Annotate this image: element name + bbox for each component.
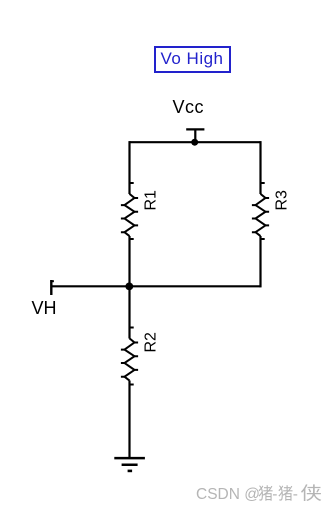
wire R2 upper (junction to R2) — [128, 286, 130, 338]
resistor R1 — [121, 183, 138, 239]
svg-text:R2: R2 — [143, 332, 160, 353]
wire top rail — [130, 141, 261, 143]
wire middle rail (VH port to right branch) — [51, 285, 261, 287]
label VH — [32, 298, 57, 319]
power symbol Vcc (T-bar and stem) — [186, 129, 204, 142]
svg-text:-: - — [272, 486, 277, 503]
junction node dot (VH / R1 / R2) — [125, 283, 133, 291]
wire right vertical upper (top rail to R3) — [259, 141, 261, 194]
annotation box "Vo High" — [154, 46, 231, 73]
ground symbol — [114, 458, 145, 471]
svg-text:R1: R1 — [143, 190, 160, 211]
resistor R2 — [121, 328, 138, 385]
resistor R3 — [252, 183, 269, 239]
wire right vertical lower (R3 to middle rail) — [259, 236, 261, 287]
wire R2 lower (R2 to ground) — [128, 381, 130, 459]
label R1 (rotated) — [143, 190, 160, 211]
svg-text:-: - — [293, 486, 298, 503]
node dot at Vcc tap — [191, 139, 198, 146]
wire left vertical upper (top rail to R1) — [128, 141, 130, 194]
label R2 (rotated) — [143, 332, 160, 353]
svg-text:CSDN @: CSDN @ — [196, 486, 260, 503]
svg-text:R3: R3 — [274, 190, 291, 211]
label R3 (rotated) — [274, 190, 291, 211]
port marker VH (wire end bar) — [51, 280, 54, 295]
wire left vertical lower (R1 to junction) — [128, 236, 130, 286]
label Vcc — [173, 97, 205, 118]
watermark CSDN @猪-猪-侠 — [196, 484, 321, 503]
